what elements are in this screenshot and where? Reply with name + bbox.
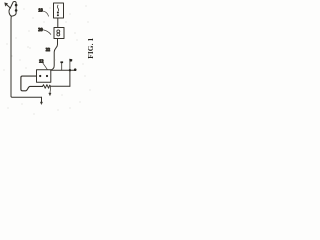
terminal stub bottom-left: [41, 97, 43, 102]
wire box20 down to node: [51, 39, 58, 71]
wire relay box left U-loop: [21, 76, 43, 91]
leader from label 20: [43, 30, 50, 35]
svg-text:22: 22: [46, 47, 50, 52]
transducer T left branch: [9, 8, 11, 16]
wire resistor to right vertical: [51, 85, 70, 87]
relay box 12: [37, 70, 51, 82]
box 20 symbol: [57, 30, 60, 33]
terminal stub 23: [61, 63, 63, 70]
wire bottom-left horizontal: [11, 95, 42, 98]
contact dot lower: [15, 9, 18, 12]
wire right vertical: [69, 70, 71, 86]
wire top-right horizontal: [51, 69, 75, 71]
box 18 symbol: [57, 5, 58, 11]
box 18: [54, 3, 64, 18]
transducer T right branch: [10, 1, 16, 16]
arrow stub below resistor: [49, 87, 52, 93]
scan noise specks: [4, 6, 91, 115]
leader from label 12: [43, 63, 48, 70]
contact dot upper: [15, 4, 18, 7]
box 20: [54, 28, 64, 39]
resistor R: [43, 85, 51, 89]
svg-text:FIG. 1: FIG. 1: [86, 37, 95, 58]
terminal stub 24: [69, 62, 71, 71]
relay contact dot left: [39, 75, 41, 77]
junction dot: [69, 69, 71, 71]
relay contact dot right: [46, 75, 48, 77]
wire box18 to box20: [57, 18, 59, 28]
leader from label 18: [43, 11, 48, 16]
wire left vertical bus: [10, 16, 12, 96]
terminal dot: [74, 68, 77, 71]
probe arrow: [6, 4, 10, 8]
